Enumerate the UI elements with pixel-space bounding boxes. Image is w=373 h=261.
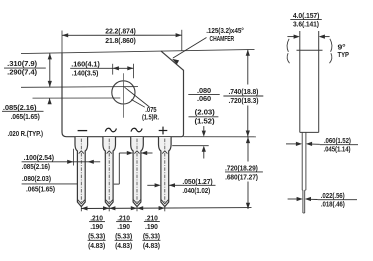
dimension .085(2.16)/.065(1.65) hole edge: [2, 98, 52, 121]
dimension .310(7.9)/.290(7.4) hole position: [4, 53, 52, 87]
svg-text:(5.33): (5.33): [115, 234, 132, 241]
polarity symbol minus (pin 1): [78, 130, 88, 132]
svg-text:.290(7.4): .290(7.4): [7, 69, 37, 76]
svg-text:.040(1.02): .040(1.02): [182, 188, 210, 195]
pin spacing text column 2 .210/.190 (5.33)/(4.83): [115, 215, 133, 250]
hole radius label .075 (1.5)R.: [142, 107, 159, 122]
hole reference line upper: [21, 86, 138, 89]
dimension .740(18.8)/.720(18.3) body height: [223, 50, 263, 137]
pin spacing text column 3 .210/.190 (5.33)/(4.83): [142, 215, 160, 250]
hole reference line lower: [33, 97, 121, 99]
side view body outline: [297, 31, 323, 132]
svg-text:4.0(.157): 4.0(.157): [293, 13, 319, 20]
svg-text:CHAMFER: CHAMFER: [210, 36, 235, 43]
svg-text:.100(2.54): .100(2.54): [24, 155, 54, 162]
dimension .080(2.03)/.065(1.65) pin width: [22, 151, 153, 194]
svg-text:.310(7.9): .310(7.9): [7, 61, 37, 68]
svg-text:.060: .060: [197, 96, 211, 103]
dimension 4.0(.157)/3.6(.141) side body width: [287, 13, 329, 39]
svg-text:.720(18.3): .720(18.3): [229, 98, 259, 105]
side view lead (wide then narrow): [302, 132, 306, 213]
dimension .080/.060 (2.03)/(1.52) pin shoulder length: [172, 88, 220, 159]
svg-text:.050(1.27): .050(1.27): [182, 179, 212, 186]
mounting hole circle: [112, 81, 135, 104]
pin 2 lead (front view): [103, 137, 116, 211]
pin 4 lead (front view): [159, 137, 172, 211]
svg-text:(1.5)R.: (1.5)R.: [142, 115, 159, 122]
svg-text:.680(17.27): .680(17.27): [225, 175, 258, 182]
svg-text:(4.83): (4.83): [115, 243, 132, 250]
svg-text:(2.03): (2.03): [195, 109, 215, 116]
hole radius leader lines: [125, 87, 150, 107]
svg-text:21.8(.860): 21.8(.860): [105, 38, 136, 45]
hole vertical centerline: [122, 73, 124, 118]
svg-text:.020 R.(TYP.): .020 R.(TYP.): [8, 131, 43, 138]
svg-text:.060(1.52): .060(1.52): [324, 138, 351, 145]
body bottom edge right extension line: [184, 136, 257, 138]
svg-text:.160(4.1): .160(4.1): [71, 61, 100, 68]
dimension 22.2(.874)/21.8(.860) overall width: [62, 28, 182, 53]
svg-text:.045(1.14): .045(1.14): [324, 146, 351, 153]
svg-text:.140(3.5): .140(3.5): [72, 70, 99, 77]
svg-text:.080(2.03): .080(2.03): [22, 176, 51, 183]
svg-text:(4.83): (4.83): [143, 243, 160, 250]
svg-text:9°: 9°: [338, 44, 346, 52]
dimension .100(2.54)/.085(2.16) pin shoulder width: [22, 149, 101, 171]
svg-text:3.6(.141): 3.6(.141): [293, 21, 319, 28]
svg-text:.022(.56): .022(.56): [321, 193, 345, 200]
svg-text:.085(2.16): .085(2.16): [22, 164, 50, 171]
svg-text:.740(18.8): .740(18.8): [228, 89, 258, 96]
package body outline (front view): [62, 51, 184, 137]
svg-text:.065(1.65): .065(1.65): [11, 114, 40, 121]
polarity symbol plus (pin 4): [159, 127, 168, 135]
svg-text:(4.83): (4.83): [88, 243, 105, 250]
pin 3 lead (front view): [131, 137, 144, 211]
pin 1 lead (front view): [75, 137, 88, 211]
polarity symbol AC tilde (pin 2): [105, 128, 116, 131]
svg-text:(1.52): (1.52): [195, 118, 215, 125]
dimension .720(18.29)/.680(17.27) pin length: [225, 137, 263, 209]
svg-text:.075: .075: [145, 107, 156, 114]
body top edge with right extension line: [21, 49, 255, 53]
dimension .022(.56)/.018(.46) lead tip width: [288, 193, 357, 209]
label 9 degrees TYP: [338, 44, 350, 59]
svg-text:(5.33): (5.33): [143, 234, 160, 241]
svg-text:(5.33): (5.33): [88, 234, 105, 241]
svg-text:.190: .190: [117, 224, 130, 231]
svg-text:.080: .080: [197, 88, 211, 95]
dimension .060(1.52)/.045(1.14) lead width: [286, 138, 358, 153]
corner radius label .020 R.(TYP.): [8, 131, 43, 138]
dimension .050(1.27)/.040(1.02) pin tip width: [147, 179, 215, 195]
dimension lines .210 pin spacing with tip reference line: [81, 206, 251, 211]
svg-text:TYP: TYP: [338, 52, 350, 59]
svg-text:.190: .190: [90, 224, 103, 231]
svg-text:.018(.46): .018(.46): [321, 202, 345, 209]
pin spacing text column 1 .210/.190 (5.33)/(4.83): [88, 215, 106, 250]
polarity symbol AC tilde (pin 3): [131, 128, 142, 131]
dimension .160(4.1)/.140(3.5) hole diameter: [70, 61, 133, 78]
chamfer callout .125(3.2)x45&#176;: [172, 27, 244, 64]
svg-text:22.2(.874): 22.2(.874): [105, 28, 136, 35]
svg-text:.190: .190: [145, 224, 158, 231]
svg-text:.125(3.2)x45°: .125(3.2)x45°: [206, 27, 244, 35]
svg-text:.065(1.65): .065(1.65): [26, 187, 55, 194]
9 degree splay arcs: [287, 39, 332, 63]
